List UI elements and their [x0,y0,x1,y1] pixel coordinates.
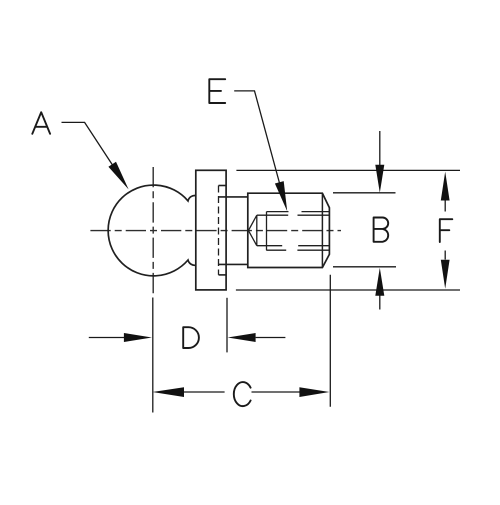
step bottom edge [219,274,227,276]
extension line flange face [226,298,228,353]
label A [32,112,50,134]
extension line thread bottom [333,266,396,268]
dimension D right arrow [228,333,256,342]
pilot hole bottom edge [257,245,329,247]
boss top edge [219,196,248,198]
boss bottom edge [219,263,248,265]
dimension C left arrow [152,387,184,397]
extension line thread end [329,275,331,407]
step hidden vertical [218,186,220,275]
extension line ball center [152,298,154,413]
horizontal centerline [90,230,341,232]
dimension C right arrow [252,391,300,393]
pilot hole top edge [257,214,329,216]
step top edge [219,185,227,187]
threaded cylinder outline [248,193,330,267]
label D [183,327,199,348]
thread start vertical [266,212,268,251]
dimension D left arrow [89,337,124,339]
drill point cone [248,215,256,246]
extension line flange top [236,169,460,171]
dimension F bottom arrow [444,251,446,260]
flange [196,170,226,290]
label F [440,219,453,242]
chamfer start line [321,193,323,267]
dimension F top arrow [441,172,450,201]
label E [209,79,225,103]
vertical centerline through ball [152,167,154,296]
thread major hidden top line [267,211,330,213]
extension line thread top [333,192,396,194]
ball and neck silhouette [108,185,196,276]
thread major hidden bottom line [266,249,329,251]
leader E [234,91,280,186]
leader A [62,122,113,165]
label C [234,382,251,406]
label B [374,218,389,242]
dimension B top arrow [379,131,381,165]
extension line flange bottom [236,289,460,291]
dimension B bottom arrow [379,296,381,310]
